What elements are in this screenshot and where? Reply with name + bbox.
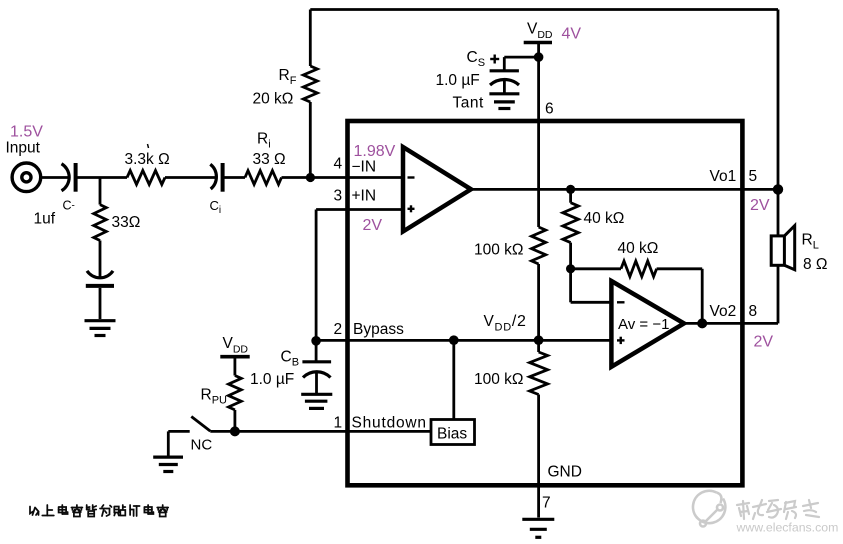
svg-text:Input: Input	[6, 140, 41, 157]
svg-text:8 Ω: 8 Ω	[803, 256, 828, 273]
resistor 40k feedback (around U2)	[571, 261, 703, 323]
wire: CS to ground	[503, 80, 506, 93]
capacitor Ci	[210, 163, 222, 192]
wire: Ci to resistor Ri	[223, 176, 245, 179]
input jack connector	[12, 163, 41, 192]
ground (CB)	[301, 394, 332, 408]
wire: CB to ground	[315, 373, 318, 394]
resistor 100k lower (VDD/2 to GND)	[530, 352, 548, 395]
wire: input cap to resistor 3.3k	[76, 176, 127, 179]
svg-text:NC: NC	[191, 437, 213, 454]
svg-text:8: 8	[749, 303, 758, 320]
wire: Vo1 node down to speaker	[777, 189, 780, 236]
svg-text:1.5V: 1.5V	[10, 124, 43, 141]
svg-text:2: 2	[334, 321, 343, 338]
node: RF / input junction	[306, 173, 315, 182]
wire: NC contact stub	[168, 431, 189, 455]
IC package outline	[348, 121, 743, 485]
wire: shutdown run (switch to Bias box pin 1)	[210, 430, 431, 433]
svg-text:3: 3	[334, 188, 343, 205]
svg-text:5: 5	[749, 168, 758, 185]
wire: speaker to Vo2 wire	[777, 265, 780, 323]
svg-text:33 Ω: 33 Ω	[253, 151, 286, 168]
svg-text:1uf: 1uf	[34, 211, 56, 228]
svg-text:2V: 2V	[754, 334, 774, 351]
wire: Bypass pin 2 to U2 non-inverting input (VDD/2 rail)	[316, 339, 611, 342]
power VDD supply bar	[524, 41, 552, 45]
node: 40k / 40k / U2 inverting junction	[566, 264, 575, 273]
svg-text:Bias: Bias	[437, 426, 467, 443]
stray tick above k	[148, 144, 149, 148]
resistor 3.3k	[127, 171, 165, 185]
node: VDD / CS junction	[534, 52, 544, 62]
svg-text:Shutdown: Shutdown	[352, 415, 427, 432]
resistor 100k upper (VDD to VDD/2)	[532, 227, 546, 264]
svg-text:4: 4	[334, 156, 343, 173]
ground (input shunt)	[85, 321, 116, 336]
wire: VDD/2 junction down to Bias box	[452, 340, 455, 419]
Bias block	[431, 420, 475, 445]
wire: U2 output to Vo2 pin 8 and RL bottom	[684, 322, 778, 325]
wire: bypass junction down to CB	[315, 341, 318, 361]
wire: junction down to U2 inverting input	[571, 269, 612, 303]
switch arm (open, to NC)	[191, 417, 210, 432]
svg-text:Vo2: Vo2	[710, 303, 737, 320]
wire: U1 output to Vo1 pin 5 and RL node	[471, 188, 778, 191]
wire: shunt cap to ground	[99, 288, 102, 319]
op-amp U1	[403, 147, 471, 232]
wire: Ri to op-amp inverting input (pin 4)	[282, 176, 404, 179]
wire: 100k to VDD/2 node	[537, 264, 540, 352]
svg-text:2V: 2V	[363, 217, 383, 234]
node: Vo1 / RL / top rail junction	[773, 184, 783, 194]
wire: 100k to IC bottom / GND pin 7	[537, 395, 540, 518]
node: Bypass / CB junction	[311, 336, 321, 346]
svg-text:1.0 µF: 1.0 µF	[250, 371, 294, 388]
svg-text:C-: C-	[63, 199, 75, 213]
svg-text:33Ω: 33Ω	[112, 214, 141, 231]
ground (CS)	[489, 94, 519, 109]
wire: top feedback rail	[310, 8, 778, 11]
svg-text:Tant: Tant	[453, 95, 484, 112]
resistor RF 20 kOhm	[303, 10, 317, 178]
resistor 40k vertical (Vo1 to U2 inverting)	[563, 189, 579, 268]
node: Vo1 / 40k junction	[566, 185, 575, 194]
op-amp U2 (Av = -1)	[611, 281, 684, 367]
svg-text:Bypass: Bypass	[353, 321, 404, 338]
note: all capacitors above are chip capacitors (Chinese)	[30, 505, 168, 517]
svg-text:2V: 2V	[750, 197, 770, 214]
wire: right vertical rail from top rail down to Vo1 node	[777, 10, 780, 190]
capacitor shunt (curved plate up, straight plate below)	[86, 271, 114, 286]
wire: 33 ohm to shunt capacitor	[99, 241, 102, 278]
capacitor C 1uf (input coupling)	[62, 163, 76, 192]
resistor 33 ohm shunt	[94, 205, 107, 241]
svg-text:+IN: +IN	[352, 188, 377, 205]
wire: jack to input capacitor	[42, 176, 69, 179]
power VDD bar (RPU pull-up)	[220, 355, 249, 359]
svg-text:Vo1: Vo1	[710, 168, 737, 185]
svg-text:−IN: −IN	[352, 159, 377, 176]
wire: VDD bar down through pin 6 into IC	[537, 43, 540, 228]
svg-text:GND: GND	[548, 464, 582, 481]
wire: junction to CS	[504, 57, 538, 69]
capacitor CS 1.0uF tantalum	[490, 71, 519, 85]
svg-text:4V: 4V	[562, 26, 582, 43]
speaker RL 8 ohm	[771, 226, 795, 270]
watermark: stylized brand characters	[737, 500, 819, 519]
wire: 3.3k to capacitor Ci	[165, 176, 217, 179]
node: Vo2 / feedback junction	[697, 318, 707, 328]
resistor Ri 33 ohm	[245, 171, 282, 185]
svg-text:1.98V: 1.98V	[354, 143, 396, 160]
svg-text:Av = −1: Av = −1	[618, 316, 669, 333]
svg-text:100 kΩ: 100 kΩ	[474, 242, 524, 259]
ground (pin 7)	[522, 519, 554, 537]
svg-text:40 kΩ: 40 kΩ	[584, 210, 625, 227]
svg-text:6: 6	[545, 101, 554, 118]
svg-text:1: 1	[334, 415, 343, 432]
node: junction to 33 ohm shunt branch	[99, 178, 102, 205]
node: VDD/2 / Bias junction	[449, 335, 459, 345]
ground (NC)	[153, 457, 183, 471]
capacitor CB 1.0uF	[302, 362, 331, 378]
svg-text:3.3k Ω: 3.3k Ω	[125, 151, 170, 168]
resistor RPU	[229, 357, 242, 432]
svg-text:www.elecfans.com: www.elecfans.com	[736, 521, 839, 535]
svg-text:7: 7	[542, 495, 551, 512]
svg-text:40 kΩ: 40 kΩ	[618, 240, 659, 257]
wire: bypass node up to non-inverting input (pin 3)	[316, 210, 403, 341]
node: VDD/2 / 100k junction	[534, 335, 544, 345]
svg-text:20 kΩ: 20 kΩ	[253, 91, 294, 108]
node: RPU / shutdown junction	[230, 426, 240, 436]
svg-text:1.0 µF: 1.0 µF	[436, 72, 480, 89]
label + polarity	[490, 55, 499, 64]
svg-text:100 kΩ: 100 kΩ	[474, 371, 524, 388]
watermark: elecfans logo	[693, 491, 725, 527]
